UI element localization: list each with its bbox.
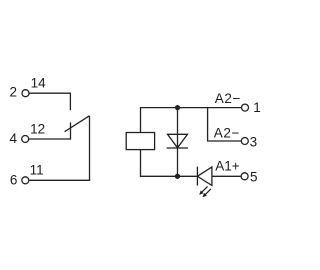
- LED emission arrow 1: [200, 186, 207, 193]
- junction dot top: [175, 105, 180, 110]
- LED cathode bar: [196, 167, 198, 186]
- wire: freewheeling diode branch: [177, 108, 179, 177]
- wire: LED to terminal 5 (A1+): [212, 175, 241, 177]
- svg-text:A2−: A2−: [215, 91, 241, 106]
- terminal circle 2: [22, 90, 29, 97]
- svg-text:11: 11: [30, 163, 44, 178]
- wire: top rail to terminal 1 (A2-): [141, 108, 242, 133]
- junction dot bottom: [175, 174, 180, 179]
- wire: branch to terminal 3 (A2-): [208, 108, 242, 141]
- svg-text:A1+: A1+: [215, 158, 240, 173]
- svg-text:4: 4: [10, 131, 18, 146]
- switch blade (movable contact from common 11): [65, 116, 90, 132]
- terminal circle 1: [242, 104, 249, 111]
- LED emission arrow 2: [204, 189, 211, 196]
- wire: terminal 6 to common 11 riser: [29, 116, 90, 181]
- terminal circle 4: [22, 136, 29, 143]
- LED triangle: [197, 167, 212, 186]
- terminal circle 6: [22, 177, 29, 184]
- svg-text:1: 1: [253, 100, 261, 115]
- diode V1 cathode bar: [167, 147, 189, 149]
- svg-text:3: 3: [250, 135, 258, 150]
- terminal circle 5: [241, 173, 248, 180]
- terminal circle 3: [241, 138, 248, 145]
- diode V1 (triangle): [168, 134, 188, 148]
- svg-text:12: 12: [30, 122, 45, 137]
- svg-text:6: 6: [10, 173, 18, 188]
- wire: terminal 4 to NC contact 12 (with contact tick): [29, 122, 71, 139]
- svg-text:A2−: A2−: [214, 126, 240, 141]
- svg-text:5: 5: [250, 170, 258, 185]
- relay coil K1: [126, 133, 154, 150]
- svg-text:14: 14: [31, 75, 47, 90]
- svg-text:2: 2: [10, 85, 18, 100]
- wire: coil bottom to bottom rail: [141, 150, 198, 177]
- wire: terminal 2 to NO contact 14: [29, 93, 70, 110]
